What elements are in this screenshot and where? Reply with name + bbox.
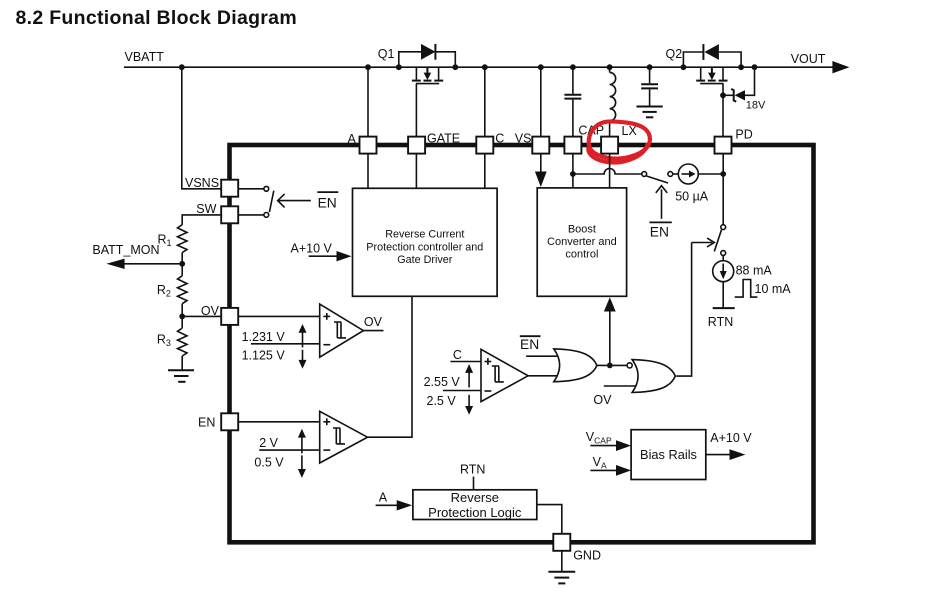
wire junction up to boost block with arrow bbox=[604, 297, 616, 365]
wire rail down to pin A bbox=[367, 67, 369, 136]
svg-text:EN: EN bbox=[650, 225, 669, 240]
threshold down arrow bbox=[465, 395, 473, 415]
zener diode 18V bbox=[723, 67, 766, 111]
wire CAP to 50uA switch with hop over LX bbox=[573, 169, 642, 175]
wire R2 to R3 bbox=[181, 304, 183, 328]
current source 50uA bbox=[673, 164, 724, 204]
wire rail down to pin C bbox=[484, 67, 486, 136]
wire VSNS pin to switch bbox=[238, 188, 264, 190]
svg-text:88 mA: 88 mA bbox=[736, 263, 773, 277]
svg-text:Bias Rails: Bias Rails bbox=[640, 447, 697, 462]
EN input label for gate1 bbox=[520, 336, 557, 356]
transistor Q1 MOSFET bbox=[412, 67, 443, 136]
gate1 OR bbox=[554, 349, 597, 382]
resistor R3 bbox=[157, 328, 187, 356]
svg-text:Protection controller and: Protection controller and bbox=[366, 241, 483, 253]
svg-text:GATE: GATE bbox=[427, 131, 460, 145]
svg-text:EN: EN bbox=[198, 415, 215, 429]
wire R1 to R2 bbox=[181, 253, 183, 276]
wire SW to resistor divider bbox=[182, 215, 221, 225]
wire block to GND pin bbox=[537, 505, 562, 534]
svg-text:RTN: RTN bbox=[460, 462, 485, 476]
svg-text:C: C bbox=[495, 131, 504, 145]
svg-text:Converter and: Converter and bbox=[547, 236, 617, 248]
resistor R2 bbox=[157, 276, 187, 304]
2.5 V threshold label bbox=[427, 394, 457, 408]
2.55 V threshold label bbox=[424, 375, 461, 389]
svg-text:0.5 V: 0.5 V bbox=[254, 455, 284, 469]
wire R3 to ground bbox=[181, 356, 183, 370]
wire SW pin to switch bbox=[238, 214, 264, 216]
wire EN comparator ref input bbox=[259, 449, 320, 451]
node BATT_MON junction bbox=[179, 261, 185, 267]
threshold down arrow bbox=[298, 455, 306, 478]
svg-text:A: A bbox=[348, 132, 357, 146]
wire OV comparator output bbox=[363, 315, 383, 331]
A+10 V output arrow bbox=[706, 431, 753, 460]
node CAP branch bbox=[570, 171, 576, 177]
block U3 Reverse Current Protection controller and Gate Driver bbox=[353, 188, 498, 296]
node VBATT label bbox=[125, 50, 165, 64]
svg-text:VBATT: VBATT bbox=[125, 50, 165, 64]
svg-text:Reverse Current: Reverse Current bbox=[385, 229, 464, 241]
switch 88mA (open) bbox=[714, 225, 725, 256]
svg-text:18V: 18V bbox=[746, 100, 766, 112]
A+10 V input arrow bbox=[291, 241, 352, 261]
pulse waveform 10 mA bbox=[735, 280, 792, 298]
VOUT arrowhead bbox=[832, 61, 849, 73]
pin LX bbox=[601, 124, 637, 154]
switch EN (VSNS/SW select) bbox=[264, 186, 274, 217]
svg-text:BATT_MON: BATT_MON bbox=[92, 243, 159, 257]
node at zener tap bbox=[720, 92, 726, 98]
EN arrow into switch bbox=[278, 192, 339, 210]
wire OV comparator ref input bbox=[251, 343, 320, 345]
wire EN comparator output to Reverse Current block bbox=[368, 296, 413, 437]
transistor Q2 label bbox=[666, 47, 683, 61]
svg-text:EN: EN bbox=[520, 337, 539, 352]
RTN label above block bbox=[460, 462, 485, 490]
wire gate1 output bbox=[597, 364, 627, 366]
wire OV junction to OV pin bbox=[182, 315, 221, 317]
wire CAP pin into boost block bbox=[572, 154, 574, 188]
inductor at LX pin bbox=[610, 67, 616, 136]
node VOUT label bbox=[791, 52, 826, 66]
svg-text:A: A bbox=[379, 490, 388, 504]
svg-text:Reverse: Reverse bbox=[451, 490, 499, 505]
wire C comparator output to gate1 bbox=[528, 375, 557, 377]
wire PD pin down bbox=[722, 154, 724, 225]
pin PD bbox=[715, 127, 753, 153]
svg-text:2.5 V: 2.5 V bbox=[427, 394, 457, 408]
wire rail down to pin VS bbox=[540, 67, 542, 136]
BATT_MON arrow bbox=[92, 243, 182, 269]
svg-text:2 V: 2 V bbox=[259, 436, 278, 450]
node OV junction bbox=[179, 314, 185, 320]
transistor Q2 MOSFET bbox=[696, 67, 727, 136]
node gate1 output junction bbox=[607, 363, 613, 369]
wire OV pin to comparator bbox=[238, 315, 320, 317]
red annotation circle around LX pin bbox=[588, 121, 650, 162]
block U6 Bias Rails bbox=[631, 430, 706, 480]
switch 50uA (open) bbox=[642, 172, 673, 183]
svg-text:VOUT: VOUT bbox=[791, 52, 826, 66]
threshold up arrow bbox=[298, 429, 306, 454]
svg-text:VSNS: VSNS bbox=[185, 176, 219, 190]
threshold down arrow bbox=[299, 350, 307, 369]
VS pin arrow into boost block bbox=[535, 154, 547, 187]
svg-text:OV: OV bbox=[593, 393, 612, 407]
ground symbol (divider) bbox=[168, 370, 194, 382]
svg-text:A+10 V: A+10 V bbox=[710, 431, 752, 445]
svg-text:A+10 V: A+10 V bbox=[291, 241, 333, 255]
transistor Q2 body diode bbox=[683, 44, 741, 67]
svg-text:EN: EN bbox=[318, 195, 337, 210]
0.5 V threshold label bbox=[254, 455, 284, 469]
pin CAP bbox=[564, 123, 604, 153]
svg-text:control: control bbox=[565, 249, 598, 261]
current source 88mA bbox=[713, 255, 773, 281]
svg-text:1.125 V: 1.125 V bbox=[242, 349, 286, 363]
pin A bbox=[348, 132, 377, 154]
gate2 OR bbox=[632, 360, 675, 393]
node C label bbox=[453, 348, 462, 362]
svg-text:1.231 V: 1.231 V bbox=[242, 330, 286, 344]
ground symbol (top capacitor) bbox=[637, 107, 663, 118]
svg-text:8.2 Functional Block Diagram: 8.2 Functional Block Diagram bbox=[16, 7, 297, 29]
IC boundary bbox=[230, 145, 814, 542]
pin VS bbox=[515, 132, 550, 154]
pin EN bbox=[198, 413, 238, 430]
svg-text:Gate Driver: Gate Driver bbox=[397, 254, 453, 266]
svg-text:10 mA: 10 mA bbox=[755, 282, 792, 296]
1.231 V threshold label bbox=[242, 330, 286, 344]
block U4 Boost Converter and control bbox=[537, 188, 626, 296]
op-amp U1 comparator OV bbox=[320, 304, 364, 357]
wire pin GATE to block bbox=[415, 154, 417, 189]
svg-text:50 µA: 50 µA bbox=[675, 190, 709, 204]
svg-text:OV: OV bbox=[364, 315, 383, 329]
svg-text:2.55 V: 2.55 V bbox=[424, 375, 461, 389]
pin GND bbox=[553, 534, 601, 563]
wire VBATT down to VSNS bbox=[182, 67, 221, 189]
wire C comparator input bbox=[450, 361, 481, 363]
wire pin A to block bbox=[367, 154, 369, 189]
pin SW bbox=[196, 202, 238, 224]
op-amp U2 comparator EN bbox=[320, 411, 368, 463]
capacitor to ground on rail bbox=[641, 67, 658, 106]
wire gate2 output up to switch bbox=[676, 243, 691, 377]
ground symbol (GND pin) bbox=[548, 551, 575, 584]
svg-text:Boost: Boost bbox=[568, 224, 596, 236]
1.125 V threshold label bbox=[242, 349, 286, 363]
control arrow into 88mA switch bbox=[692, 238, 715, 247]
svg-text:SW: SW bbox=[196, 202, 216, 216]
svg-text:Q2: Q2 bbox=[666, 47, 683, 61]
block U7 Reverse Protection Logic bbox=[413, 490, 537, 520]
A input arrow bbox=[376, 490, 413, 510]
op-amp U5 comparator C bbox=[481, 349, 528, 401]
wire pin C to block bbox=[484, 154, 486, 189]
wire EN pin to comparator bbox=[238, 421, 320, 423]
wire C comparator ref input bbox=[443, 390, 481, 392]
svg-text:GND: GND bbox=[573, 549, 601, 563]
pin VSNS bbox=[185, 176, 238, 197]
svg-text:PD: PD bbox=[735, 127, 752, 141]
resistor R1 bbox=[158, 225, 188, 253]
VA input bbox=[590, 455, 631, 476]
svg-text:Protection Logic: Protection Logic bbox=[428, 505, 522, 520]
junction dots on top rail bbox=[179, 64, 757, 70]
OV input label for gate2 bbox=[593, 386, 636, 407]
wire LX pin into boost block bbox=[609, 154, 611, 188]
RTN rail under 88mA source bbox=[708, 282, 735, 329]
gate2 NOR bubble bbox=[627, 363, 632, 368]
svg-text:Q1: Q1 bbox=[378, 47, 395, 61]
pin GATE bbox=[408, 131, 460, 153]
node PD junction bbox=[720, 171, 726, 177]
svg-text:RTN: RTN bbox=[708, 315, 733, 329]
threshold up arrow bbox=[299, 324, 307, 348]
threshold up arrow bbox=[465, 364, 473, 387]
transistor Q1 label bbox=[378, 47, 395, 61]
capacitor at CAP pin bbox=[564, 67, 581, 136]
2 V threshold label bbox=[259, 436, 278, 450]
transistor Q1 body diode bbox=[399, 44, 456, 67]
svg-text:VS: VS bbox=[515, 132, 532, 146]
pin OV bbox=[201, 304, 238, 325]
EN up arrow at switch bbox=[649, 186, 671, 240]
VCAP input bbox=[586, 430, 631, 451]
wire VBATT to VOUT top rail bbox=[124, 66, 833, 68]
svg-text:C: C bbox=[453, 348, 462, 362]
pin C bbox=[476, 131, 504, 153]
